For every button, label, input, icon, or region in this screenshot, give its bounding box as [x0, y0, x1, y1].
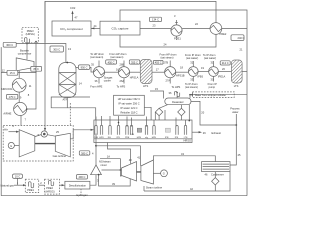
wire IPE1A to LTS 212C — [218, 61, 231, 72]
wire GT exhaust to HRSG 25 — [56, 129, 94, 139]
svg-text:To HPS: To HPS — [172, 85, 181, 89]
svg-text:(sat steam): (sat steam) — [161, 56, 174, 60]
svg-text:HTS: HTS — [143, 84, 148, 88]
svg-text:IP sat water 256 C: IP sat water 256 C — [118, 102, 139, 106]
svg-text:HP sat water 332 C: HP sat water 332 C — [118, 97, 141, 101]
heat exchanger HPS1A — [118, 61, 138, 84]
svg-text:Natural gas: Natural gas — [1, 183, 15, 187]
svg-text:pump: pump — [209, 86, 216, 89]
label Process water — [230, 107, 240, 126]
turbine steam LP — [141, 160, 154, 184]
HRSG box — [94, 120, 192, 143]
wire cooler to HPS1A 450C — [105, 60, 120, 72]
wire PRE2 to desulfurization — [60, 184, 65, 186]
svg-text:26B: 26B — [120, 63, 125, 67]
heat exchanger PRE2 HRSG dashed — [45, 179, 60, 194]
wire air inlet 6 — [4, 124, 20, 133]
heat exchanger AIRHE — [3, 102, 26, 115]
svg-text:HRSG: HRSG — [184, 139, 192, 143]
wire NG feed 1 — [14, 178, 26, 186]
svg-text:175 C: 175 C — [9, 95, 16, 99]
svg-text:LTE: LTE — [184, 137, 188, 139]
svg-text:HPS: HPS — [99, 137, 104, 139]
pump condensate — [212, 172, 219, 185]
heat exchanger PRE2 top — [210, 23, 227, 36]
wire HRSG steam line 40 — [108, 143, 133, 164]
wire booster inlet 12 15C 10 — [1, 67, 36, 75]
wire capture bottom loop 24 — [120, 34, 216, 47]
svg-text:(sat steam): (sat steam) — [185, 85, 198, 89]
svg-text:240 C: 240 C — [238, 36, 245, 40]
gas turbine dashed package box — [3, 126, 73, 162]
wire ATR bottom loop to HRSG water line — [51, 97, 95, 120]
svg-text:HPS1B: HPS1B — [176, 74, 185, 78]
heat exchanger PRE1 NG dashed — [25, 179, 38, 192]
HRSG coil labels — [94, 134, 188, 139]
wire desulf to mixer 3 400C — [76, 175, 99, 186]
info box HRSG temperatures — [114, 95, 145, 115]
label 134 C — [150, 17, 162, 27]
svg-text:HPE: HPE — [152, 137, 157, 139]
wire ATR syngas out 950C 14 — [76, 65, 94, 85]
svg-text:PRE1: PRE1 — [174, 37, 181, 41]
generator steam G — [153, 170, 167, 177]
svg-text:CO₂ compressor: CO₂ compressor — [60, 27, 83, 31]
svg-text:Hydrogen: Hydrogen — [76, 193, 88, 197]
label To IP drum sat water — [203, 53, 216, 60]
svg-text:Reboiler 118 C: Reboiler 118 C — [120, 111, 137, 115]
svg-text:134 C: 134 C — [152, 18, 159, 22]
wire IPE6 to IPE1A 19 — [198, 66, 208, 72]
deaerator — [165, 91, 191, 105]
svg-text:PRE: PRE — [125, 137, 130, 139]
generator GT G — [8, 142, 19, 148]
svg-text:(sat steam): (sat steam) — [110, 55, 123, 59]
HRSG coils — [94, 105, 192, 139]
heat exchanger IPE1A — [209, 61, 226, 82]
wire LTE to deaerator 15 — [150, 87, 164, 99]
drum HP — [155, 105, 167, 120]
svg-text:212 C: 212 C — [222, 61, 229, 65]
svg-text:IPE: IPE — [175, 137, 179, 139]
wire capture to compressor 44 — [91, 24, 100, 29]
svg-text:G: G — [163, 172, 165, 176]
label 10 C natural gas — [13, 174, 23, 179]
svg-text:RH: RH — [108, 137, 112, 139]
svg-text:AIRCOOL: AIRCOOL — [1, 87, 13, 91]
svg-text:450 C: 450 C — [108, 60, 115, 64]
wire HPS1B to IPE6 18 — [176, 66, 189, 73]
svg-text:CO₂ capture: CO₂ capture — [111, 27, 128, 31]
wire PRE1 to PRE2 22 — [182, 22, 210, 29]
label From IP pump — [208, 82, 217, 89]
reactor HTS vessel — [140, 60, 152, 89]
svg-text:compressor: compressor — [18, 52, 32, 56]
mixer NG steam triangle — [91, 160, 111, 175]
reactor LTS vessel — [231, 60, 242, 88]
label To IP drum sat steam — [185, 82, 198, 89]
label 300 C left — [3, 42, 16, 47]
desulfurization box — [65, 181, 90, 189]
wire AIRHE right up to booster — [26, 41, 37, 110]
svg-text:Deaerator: Deaerator — [172, 100, 184, 104]
wire compressor to AIRCOOL — [18, 71, 20, 79]
label From IP drum sat water — [185, 53, 201, 60]
heat exchanger IPE6 — [188, 61, 203, 82]
wire HRSG exhaust 26 — [192, 131, 221, 135]
label Hydrogen — [76, 189, 88, 197]
svg-text:Exhaust: Exhaust — [212, 131, 222, 135]
svg-text:(sat water): (sat water) — [204, 56, 216, 60]
svg-text:CO2: CO2 — [70, 6, 76, 10]
reactor ATR column — [59, 62, 76, 102]
svg-text:IPE1A: IPE1A — [218, 75, 226, 79]
wire HPS1A to HTS 355C — [129, 60, 140, 72]
svg-text:mixer: mixer — [101, 163, 107, 167]
svg-text:From HPE: From HPE — [90, 85, 102, 89]
wire AIRHE air from GT 7 — [21, 115, 27, 125]
svg-text:LTS: LTS — [234, 84, 239, 88]
wire LTS to right line — [242, 71, 247, 73]
turbine GT — [55, 133, 70, 157]
heat exchanger AIRCOOL — [1, 78, 32, 92]
label water from stripper reboiler — [189, 92, 247, 98]
svg-text:Water from stripper reboiler: Water from stripper reboiler — [195, 93, 227, 97]
compressor GT — [19, 130, 35, 157]
svg-text:PRE2: PRE2 — [220, 32, 227, 36]
svg-text:G: G — [10, 144, 12, 148]
svg-text:Condenser: Condenser — [211, 172, 224, 176]
label From HP drum sat steam 1 — [109, 52, 126, 59]
svg-text:(sat steam): (sat steam) — [90, 55, 103, 59]
svg-text:IP water 121 C: IP water 121 C — [120, 106, 137, 110]
svg-text:Desulfurization: Desulfurization — [69, 183, 87, 187]
label From HP drum sat steam 2 — [160, 53, 177, 60]
node junction ATR feed dot — [26, 43, 28, 45]
wire PRE2 to right line 240C — [222, 29, 247, 52]
label To HP drum sat steam — [90, 52, 104, 59]
CO2 capture box — [100, 21, 140, 35]
svg-text:380 C: 380 C — [81, 151, 88, 155]
svg-text:(HRSG): (HRSG) — [26, 32, 35, 36]
heat exchanger HPS1B — [164, 61, 185, 84]
wire syngas top line A — [45, 1, 216, 42]
svg-text:ATR: ATR — [63, 97, 68, 101]
label 86 C — [31, 66, 42, 71]
wire turbine to condenser 43 — [153, 152, 215, 162]
svg-text:(HRSG): (HRSG) — [45, 189, 54, 193]
svg-text:300 C: 300 C — [53, 48, 60, 52]
svg-text:15 C: 15 C — [10, 71, 16, 75]
svg-text:HPB: HPB — [137, 137, 142, 139]
svg-text:C4B: C4B — [130, 134, 135, 136]
svg-text:400 C: 400 C — [78, 175, 85, 179]
node HRSG riser junction — [118, 122, 120, 124]
svg-text:10 C: 10 C — [15, 175, 21, 179]
wire process water down to condenser 45 — [230, 125, 241, 165]
combustor — [35, 128, 56, 137]
svg-text:1A: 1A — [107, 155, 110, 159]
wire ATR feed line 300C — [16, 44, 66, 63]
heat exchanger PRE1 top — [171, 14, 182, 41]
svg-text:Air: Air — [4, 128, 8, 132]
wire HRSG steam line 1A — [96, 146, 141, 166]
svg-text:IPE6: IPE6 — [197, 75, 203, 79]
wire CO2 vent with arrow 47 — [70, 6, 78, 21]
svg-text:AIRHE: AIRHE — [3, 111, 11, 115]
border bottom — [1, 195, 247, 197]
heat exchanger syngas cooler — [91, 61, 113, 84]
wire treated gas top line B — [120, 10, 247, 196]
shaft steam turbine — [137, 171, 141, 172]
shaft GT — [35, 143, 56, 144]
svg-text:300 C: 300 C — [6, 43, 13, 47]
svg-text:PRE2: PRE2 — [46, 186, 53, 190]
svg-text:355 C: 355 C — [131, 60, 138, 64]
wire PRE1 to PRE2 NG 2 — [39, 181, 45, 185]
border left — [0, 47, 2, 196]
svg-text:27B: 27B — [164, 61, 169, 65]
svg-text:PRE1: PRE1 — [27, 188, 34, 192]
CO2 compressor box — [52, 21, 91, 36]
svg-text:Steam turbine: Steam turbine — [146, 185, 163, 189]
wire deaerator to process water 20 — [191, 101, 237, 126]
wire syngas fuel vertical to combustor — [44, 1, 46, 131]
label 300 C at ATR inlet — [50, 46, 71, 52]
turbine steam HP — [122, 162, 137, 182]
compressor booster — [16, 43, 34, 71]
wire steam to mixer 39 — [98, 174, 131, 186]
wire condensate return 42 — [144, 172, 230, 191]
wire mixer out 4 380C — [79, 134, 97, 165]
svg-text:To HPS: To HPS — [117, 85, 126, 89]
heat exchanger PRE3 HRSG dashed box — [22, 27, 38, 43]
svg-text:26A: 26A — [120, 79, 125, 83]
svg-text:455 C: 455 C — [155, 61, 162, 65]
svg-text:(sat water): (sat water) — [186, 56, 198, 60]
HRSG coil small drums — [137, 128, 141, 132]
svg-text:water: water — [232, 110, 238, 114]
svg-text:950 C: 950 C — [81, 66, 88, 70]
svg-text:cooler: cooler — [104, 78, 111, 82]
svg-text:HPS1A: HPS1A — [130, 75, 139, 79]
svg-text:27A: 27A — [166, 79, 171, 83]
wire HTS to HPS1B 455C 17 — [152, 60, 165, 72]
wire capture right to PRE1 — [140, 27, 171, 29]
wire AIRCOOL to AIRHE 175C 9 — [7, 92, 30, 102]
drum IP — [178, 105, 185, 120]
condenser — [202, 162, 230, 177]
